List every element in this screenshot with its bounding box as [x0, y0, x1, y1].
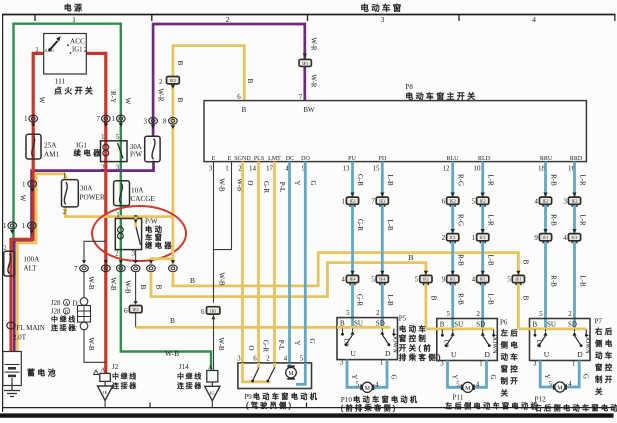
highlight ellipse around P/W relay [92, 206, 186, 261]
svg-text:O: O [246, 180, 254, 185]
svg-text:开关(前: 开关(前 [399, 343, 433, 353]
svg-text:ACC: ACC [70, 38, 85, 46]
svg-text:SU: SU [354, 320, 363, 328]
svg-text:G: G [308, 338, 316, 343]
svg-text:5: 5 [549, 381, 553, 388]
svg-text:L-B: L-B [386, 219, 394, 231]
svg-text:左后: 左后 [501, 328, 521, 338]
connector J14 box [207, 364, 218, 382]
svg-text:P6: P6 [500, 319, 508, 327]
wire from P/W relay pin3 to oval [135, 250, 137, 261]
svg-text:L-B: L-B [487, 254, 495, 266]
relay P/W power window relay box [115, 212, 141, 257]
svg-text:点火开关: 点火开关 [54, 86, 95, 96]
battery ground symbol [4, 386, 20, 397]
connector IE1 on RLD [472, 271, 489, 285]
svg-text:W: W [38, 97, 46, 104]
P5 switch box [337, 318, 398, 360]
svg-text:7: 7 [299, 93, 303, 101]
svg-text:IE2: IE2 [170, 78, 176, 83]
svg-text:R-G: R-G [457, 174, 465, 186]
svg-text:CACGE: CACGE [131, 195, 156, 203]
svg-text:3: 3 [381, 15, 385, 24]
svg-text:5: 5 [346, 310, 350, 317]
wire L-B blue PD [381, 162, 384, 328]
wire yellow into 30A POWER fuse [64, 174, 67, 180]
wire below IF2 to B bus [135, 313, 137, 328]
svg-text:IC1: IC1 [571, 235, 577, 240]
connector oval 1 on green W wire [112, 115, 126, 127]
connector IE3 on PU [341, 193, 358, 207]
svg-text:中继线: 中继线 [51, 315, 77, 324]
fuse 30A P/W [130, 136, 160, 161]
svg-text:DC: DC [286, 156, 294, 162]
svg-text:IE1: IE1 [423, 277, 429, 282]
svg-text:电源: 电源 [64, 3, 85, 13]
svg-text:W-B: W-B [218, 272, 226, 286]
svg-text:IE2: IE2 [450, 198, 456, 203]
svg-text:14: 14 [249, 165, 257, 173]
svg-text:AM1: AM1 [45, 48, 55, 53]
svg-text:10A: 10A [131, 187, 144, 195]
svg-text:5: 5 [507, 276, 511, 284]
arrow on purple above IF1 [303, 54, 307, 59]
P6 switch box [437, 319, 498, 361]
svg-text:100A: 100A [23, 256, 40, 264]
fuse 100A ALT [4, 246, 41, 277]
svg-text:5: 5 [472, 197, 476, 205]
P8 master switch box [204, 101, 586, 162]
svg-text:RLU: RLU [447, 156, 460, 162]
svg-text:J28: J28 [51, 309, 61, 316]
svg-text:窗控制: 窗控制 [399, 333, 428, 343]
svg-text:AM1: AM1 [44, 151, 60, 159]
svg-text:IE2: IE2 [542, 198, 548, 203]
connector IE2 on RLD [472, 193, 489, 207]
connector IE2 on RLU [442, 193, 459, 207]
P11 label [445, 394, 540, 411]
svg-text:W-B: W-B [218, 178, 226, 192]
svg-text:4: 4 [568, 381, 572, 388]
svg-text:W-B: W-B [124, 280, 132, 294]
svg-text:B: B [430, 296, 438, 301]
ground triangle below J2 [98, 381, 113, 407]
connector IF2 [124, 306, 142, 316]
connector oval on yellow B branch1 [147, 260, 156, 272]
wire B from oval to IF2 and P5 feed [83, 272, 85, 298]
svg-text:4: 4 [476, 382, 480, 389]
svg-text:2: 2 [101, 165, 105, 172]
J2 labels [112, 363, 138, 390]
P12 motor wiring [540, 361, 579, 388]
P7 label column [595, 318, 615, 397]
svg-text:B: B [155, 285, 163, 290]
left border [2, 15, 4, 413]
ignition switch lever [48, 36, 61, 51]
connector IE4 on PD [371, 271, 388, 285]
P5 yellow internal B bus [337, 326, 391, 329]
svg-text:4: 4 [534, 197, 538, 205]
svg-text:蓄电池: 蓄电池 [27, 368, 58, 378]
svg-text:W-R: W-R [310, 37, 318, 51]
svg-text:继电器: 继电器 [145, 241, 174, 250]
svg-text:P7: P7 [595, 318, 603, 326]
junction dot on yellow [134, 215, 137, 218]
svg-text:4: 4 [563, 234, 567, 242]
wire L-R / L-B blue RLD [481, 162, 484, 328]
svg-text:D: D [485, 350, 491, 359]
P6 label column [500, 319, 520, 398]
svg-text:DOWN: DOWN [584, 334, 591, 354]
svg-text:PLS: PLS [254, 156, 264, 162]
svg-text:5: 5 [446, 311, 450, 318]
svg-text:B: B [176, 98, 184, 103]
svg-text:B: B [176, 61, 184, 66]
P6 switch internals [440, 311, 498, 368]
svg-text:SD: SD [376, 320, 385, 328]
svg-text:Y: Y [350, 375, 357, 380]
svg-text:1: 1 [101, 134, 104, 141]
svg-text:制开: 制开 [595, 374, 615, 384]
svg-text:R-B: R-B [550, 214, 558, 226]
svg-text:B: B [522, 296, 530, 301]
svg-text:FL MAIN: FL MAIN [17, 324, 45, 332]
connector IF1 on purple [299, 59, 311, 66]
connector oval on relay output B [131, 260, 140, 272]
svg-text:A: A [101, 367, 106, 374]
fuse 10A CACGE [114, 181, 156, 206]
svg-text:IC1: IC1 [542, 235, 548, 240]
svg-text:U: U [351, 349, 357, 358]
svg-text:L-B: L-B [386, 174, 394, 186]
P7 switch box [530, 319, 591, 361]
connector oval on red R-Y [102, 260, 111, 272]
svg-text:连接器: 连接器 [112, 381, 138, 390]
P9 internal yellow wiring [243, 363, 275, 382]
svg-text:1: 1 [116, 212, 119, 219]
svg-text:3: 3 [533, 361, 537, 368]
svg-text:10: 10 [474, 165, 482, 173]
svg-text:2: 2 [115, 251, 119, 258]
svg-text:B: B [190, 276, 195, 285]
svg-text:G: G [582, 374, 589, 379]
P11 wire labels [451, 375, 497, 389]
svg-text:B: B [440, 321, 445, 329]
relay P/W text labels [145, 218, 174, 250]
svg-text:中继线: 中继线 [177, 372, 203, 381]
connector oval 1 on green wire y225 [3, 222, 17, 234]
svg-text:J28: J28 [51, 300, 61, 307]
svg-text:G: G [489, 375, 496, 380]
ignition ACC terminal [67, 38, 85, 47]
wire W red (ignition AM1 feed) [11, 53, 44, 351]
svg-text:IE2: IE2 [480, 198, 486, 203]
svg-text:Y: Y [293, 340, 301, 345]
svg-text:B: B [242, 106, 247, 114]
svg-text:1: 1 [472, 234, 476, 242]
wire W-B from P8 pin3 and pin1 [214, 162, 232, 303]
svg-text:W-B: W-B [87, 337, 95, 351]
svg-text:L-R: L-R [487, 174, 495, 186]
svg-text:IG1: IG1 [72, 47, 83, 54]
svg-text:4: 4 [375, 382, 379, 389]
P12 wire labels [543, 374, 589, 388]
P11 motor wiring [448, 361, 487, 388]
svg-text:5: 5 [300, 356, 304, 363]
svg-text:3: 3 [209, 165, 213, 173]
svg-text:右后侧电动车窗电动机: 右后侧电动车窗电动机 [535, 404, 617, 413]
svg-text:P9电动车窗电动机: P9电动车窗电动机 [244, 392, 319, 401]
connector IB1 [201, 307, 220, 320]
svg-text:P/W: P/W [130, 152, 143, 159]
svg-text:G: G [309, 180, 317, 185]
svg-text:30A: 30A [80, 185, 93, 193]
arrow on yellow below IE2 connector [171, 85, 175, 89]
svg-text:U: U [544, 350, 550, 359]
wire L-R / L-B blue RRD [573, 162, 576, 328]
P5 label column [399, 315, 443, 363]
wire P-L yellow LMT [273, 162, 276, 363]
P10 motor wiring [347, 360, 387, 388]
svg-text:4: 4 [472, 276, 476, 284]
svg-text:5: 5 [539, 311, 543, 318]
wire R-G / R-B blue RLU [451, 162, 454, 328]
svg-text:5: 5 [456, 382, 460, 389]
svg-text:E: E [228, 156, 232, 162]
svg-text:P-L: P-L [278, 182, 286, 193]
svg-text:2.0T: 2.0T [13, 334, 27, 342]
svg-text:A: A [208, 364, 213, 371]
svg-text:G: G [390, 375, 397, 380]
svg-text:1: 1 [22, 180, 26, 188]
svg-text:IG: IG [210, 390, 215, 395]
svg-text:6: 6 [237, 93, 241, 101]
svg-text:1: 1 [572, 361, 575, 368]
svg-text:IE1: IE1 [515, 277, 521, 282]
wire W-B IB1 to J14 [213, 314, 215, 370]
fusible link FL MAIN oval [7, 322, 45, 341]
connector IC1 on RRU [534, 229, 551, 243]
svg-text:关: 关 [595, 386, 605, 396]
svg-text:L-R: L-R [579, 174, 587, 186]
svg-text:5: 5 [356, 382, 360, 389]
black W-B tap wire from red to oval 7 [84, 241, 106, 260]
svg-text:15: 15 [373, 165, 381, 173]
top header line [2, 15, 616, 22]
svg-text:续电器: 续电器 [74, 148, 103, 158]
connector oval 3 on purple left leg [144, 117, 158, 129]
connector oval on yellow B branch2 [169, 260, 178, 272]
svg-text:IB1: IB1 [210, 308, 216, 313]
P7 yellow internal B bus [518, 327, 586, 330]
svg-text:2: 2 [476, 311, 480, 318]
svg-text:关: 关 [501, 388, 511, 398]
labels W-B on E wires [217, 178, 244, 351]
svg-text:R-B: R-B [457, 293, 465, 305]
yellow branch from tall wire to oval row [151, 217, 173, 264]
svg-text:L-B: L-B [579, 275, 587, 287]
svg-text:右后: 右后 [595, 326, 615, 336]
wire Y blue DC [288, 162, 291, 363]
svg-text:M: M [365, 386, 371, 392]
connector oval 7 on red R-Y wire [97, 115, 111, 127]
wire W-B below J28 to J2 [84, 330, 106, 363]
fuse 30A POWER [62, 173, 105, 216]
yellow B run to P7 [173, 253, 519, 329]
svg-text:2: 2 [159, 78, 163, 86]
svg-text:A: A [65, 302, 69, 307]
P7 switch internals [533, 311, 591, 368]
svg-text:17: 17 [266, 165, 274, 173]
svg-text:IE3: IE3 [379, 198, 385, 203]
svg-text:(驾驶员侧): (驾驶员侧) [246, 401, 293, 410]
svg-text:Y: Y [293, 180, 301, 185]
svg-text:W-B: W-B [217, 337, 225, 351]
svg-text:R-B: R-B [550, 275, 558, 287]
wire W green loop section1 [14, 24, 212, 371]
P11 motor [462, 382, 474, 392]
svg-text:5: 5 [415, 276, 419, 284]
svg-text:R-B: R-B [550, 174, 558, 186]
svg-text:IF1: IF1 [302, 61, 308, 66]
svg-text:IE1: IE1 [450, 277, 456, 282]
wire W-R purple from P/W fuse to battery bundle [14, 161, 153, 352]
svg-text:IF2: IF2 [133, 307, 139, 312]
svg-text:窗控: 窗控 [501, 364, 521, 374]
svg-text:3: 3 [144, 117, 148, 125]
P9 pin numbers [237, 356, 304, 363]
svg-text:7: 7 [74, 265, 78, 273]
svg-text:R-G: R-G [457, 214, 465, 226]
connector IE1 on P6 B drop [415, 271, 432, 285]
wire W-R purple section2 loop [153, 24, 305, 137]
svg-text:RLD: RLD [478, 156, 491, 162]
svg-text:P11: P11 [453, 394, 464, 402]
svg-text:9: 9 [534, 234, 538, 242]
svg-text:P-L: P-L [277, 340, 285, 351]
svg-text:左后侧电动车窗电动机: 左后侧电动车窗电动机 [445, 402, 540, 411]
svg-text:4: 4 [341, 276, 345, 284]
svg-text:2: 2 [84, 46, 88, 54]
svg-text:6: 6 [201, 308, 205, 316]
svg-text:G-R: G-R [356, 219, 364, 231]
svg-text:W-B: W-B [87, 276, 95, 290]
connector IC1 on RRD [563, 229, 580, 243]
relay IG1 box [74, 134, 128, 171]
svg-text:6: 6 [442, 197, 446, 205]
wire yellow tall B loop to P8 pin6 [173, 46, 244, 217]
svg-text:SU: SU [547, 321, 556, 329]
svg-text:P12: P12 [535, 396, 547, 404]
ignition IG1 terminal [70, 47, 83, 54]
svg-text:25A: 25A [44, 142, 57, 150]
connector IE1 on P7 B drop [507, 271, 524, 285]
P10 label [341, 395, 420, 413]
connector J28 block [78, 298, 91, 330]
connector oval 7 W-B [74, 260, 88, 273]
svg-text:SD: SD [476, 321, 485, 329]
wire G-R blue PU [351, 162, 354, 328]
svg-text:J2: J2 [112, 363, 119, 371]
svg-text:IC1: IC1 [480, 235, 486, 240]
P9 label [244, 392, 319, 410]
bottom thick border [0, 413, 614, 417]
svg-text:动车: 动车 [595, 350, 615, 360]
wire O yellow SGND [241, 162, 244, 363]
svg-text:SD: SD [568, 321, 577, 329]
P12 motor [554, 382, 566, 392]
svg-text:PU: PU [348, 156, 356, 162]
yellow B run to P6 [151, 263, 426, 329]
svg-text:3: 3 [340, 360, 344, 367]
svg-text:B: B [533, 321, 538, 329]
svg-text:IE4: IE4 [349, 277, 356, 282]
fuse 25A AM1 [26, 134, 60, 159]
wire yellow battery bundle [17, 174, 65, 352]
ground triangle below J14 [205, 382, 220, 408]
svg-text:3: 3 [440, 361, 444, 368]
svg-text:L-B: L-B [386, 294, 394, 306]
svg-text:2: 2 [442, 234, 446, 242]
svg-text:1: 1 [479, 361, 482, 368]
svg-text:ALT: ALT [23, 265, 37, 273]
svg-text:D: D [73, 301, 78, 308]
svg-text:4: 4 [532, 15, 536, 24]
svg-text:1: 1 [35, 46, 39, 54]
connector oval 8 on yellow tall wire [163, 117, 177, 129]
svg-text:UP: UP [535, 340, 542, 348]
connector IE2 on yellow section2 [159, 77, 179, 87]
svg-text:M: M [288, 371, 294, 377]
svg-text:B: B [408, 253, 413, 262]
svg-text:J14: J14 [179, 363, 189, 371]
svg-text:D: D [385, 349, 391, 358]
P8 label [405, 83, 477, 101]
yellow B bus to P5 [136, 326, 337, 329]
battery [3, 352, 22, 386]
wire R-B blue RRU [544, 162, 547, 328]
svg-text:1: 1 [72, 15, 76, 24]
svg-text:中继线: 中继线 [112, 372, 138, 381]
svg-text:L-R: L-R [579, 214, 587, 226]
svg-text:2: 2 [266, 356, 270, 363]
connector IE2 on RRU [534, 193, 551, 207]
svg-text:1: 1 [225, 165, 229, 173]
J14 labels [177, 363, 203, 390]
svg-text:6: 6 [253, 356, 257, 363]
svg-text:E: E [212, 156, 216, 162]
ignition switch 111 box [44, 34, 87, 75]
svg-text:9: 9 [442, 276, 446, 284]
svg-text:G-R: G-R [356, 174, 364, 186]
svg-text:PD: PD [379, 156, 387, 162]
svg-text:W-B: W-B [109, 277, 117, 291]
wire R-Y red (ignition IG1 to J2) [86, 53, 106, 373]
svg-text:连接器: 连接器 [177, 381, 203, 390]
svg-text:13: 13 [343, 165, 351, 173]
svg-text:M: M [465, 386, 471, 392]
svg-text:R-B: R-B [457, 254, 465, 266]
arrow above IF2 [134, 301, 138, 305]
svg-text:2: 2 [568, 311, 572, 318]
connector oval 1 on red W wire [24, 115, 38, 127]
svg-text:M: M [557, 386, 563, 392]
svg-text:2: 2 [4, 246, 7, 252]
connector IE4 on PU [341, 271, 358, 285]
svg-text:1: 1 [380, 360, 383, 367]
J28 labels [51, 299, 78, 333]
svg-text:POWER: POWER [80, 194, 105, 202]
